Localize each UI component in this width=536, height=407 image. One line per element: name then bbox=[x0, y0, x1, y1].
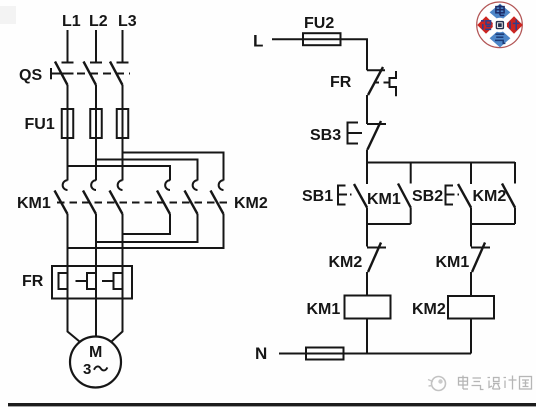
wire KM1 coil to N bus bbox=[366, 319, 368, 354]
KM1 main contact 1 arc bbox=[63, 180, 68, 190]
logo outer circle bbox=[477, 2, 523, 48]
svg-text:N: N bbox=[255, 344, 267, 363]
svg-text:KM2: KM2 bbox=[234, 195, 268, 212]
svg-text:QS: QS bbox=[19, 67, 42, 84]
SB1 actuator rod bbox=[338, 194, 352, 196]
svg-text:M: M bbox=[89, 344, 102, 361]
QS pole 1 fixed contact bbox=[62, 62, 74, 64]
svg-text:FU2: FU2 bbox=[304, 15, 334, 32]
SB3 actuator bbox=[348, 123, 359, 144]
svg-text:L: L bbox=[253, 32, 263, 51]
fuse FU2 bbox=[303, 33, 341, 45]
svg-text:L3: L3 bbox=[118, 13, 137, 30]
svg-text:SB1: SB1 bbox=[302, 188, 333, 205]
SB3 actuator rod bbox=[348, 132, 363, 134]
logo center circle bbox=[493, 18, 507, 32]
logo center glyph bbox=[496, 21, 504, 29]
watermark text quan bbox=[520, 377, 532, 390]
wire phase2 to KM2 pole2 top bbox=[96, 160, 198, 181]
KM2 main contact 3 arc bbox=[219, 180, 224, 190]
svg-text:L1: L1 bbox=[62, 13, 81, 30]
QS pole 2 blade bbox=[84, 62, 97, 86]
svg-text:KM2: KM2 bbox=[329, 254, 363, 271]
FR heater 1 bbox=[59, 273, 68, 289]
wire N to fuse bbox=[279, 353, 306, 355]
watermark text ji bbox=[504, 376, 517, 390]
wire junction to KM1 interlock bbox=[470, 224, 472, 247]
svg-text:KM1: KM1 bbox=[367, 191, 401, 208]
FR heater 2 bbox=[87, 273, 96, 289]
wire L to FU2 bbox=[272, 38, 303, 40]
svg-text:KM2: KM2 bbox=[412, 301, 446, 318]
drop to KM1 aux bbox=[410, 162, 412, 184]
FR trip release symbol bbox=[390, 71, 397, 96]
KM2 main contact 1 arc bbox=[165, 180, 170, 190]
svg-text:KM1: KM1 bbox=[436, 254, 470, 271]
KM1/KM2 linkage dashed bbox=[57, 202, 232, 204]
motor M circle bbox=[70, 337, 121, 388]
svg-text:FU1: FU1 bbox=[25, 116, 55, 133]
top bus bbox=[367, 162, 515, 164]
wire L3 drop bbox=[122, 30, 124, 63]
wire phase2 down to KM1 pole2 bbox=[95, 138, 97, 181]
wire FR to SB3 bbox=[366, 95, 368, 124]
watermark text she bbox=[488, 378, 501, 390]
LOGO top right bbox=[477, 2, 523, 48]
FR NC contact bar bbox=[367, 69, 385, 71]
wire KM2 pole2 to phase2 column bbox=[96, 214, 198, 242]
drop to SB2 bbox=[470, 162, 472, 184]
wire SB3 to bus bbox=[366, 150, 368, 164]
SB2 actuator bbox=[446, 186, 454, 205]
KM2 main contact 1 blade bbox=[157, 191, 170, 215]
KM2 main contact 3 blade bbox=[211, 191, 224, 215]
wire KM2 coil to N bus bbox=[470, 319, 472, 354]
wire QS to FU1 phase3 bbox=[122, 85, 124, 109]
svg-text:KM1: KM1 bbox=[307, 301, 341, 318]
WATERMARK bottom right bbox=[428, 376, 532, 391]
QS linkage dashed bbox=[77, 73, 130, 75]
wire column3 to FR bbox=[122, 214, 124, 266]
logo char left bbox=[481, 21, 491, 30]
SB1 actuator bbox=[338, 186, 346, 205]
KM2 NC interlock bar bbox=[367, 247, 386, 249]
KM1 aux NO blade bbox=[398, 184, 411, 208]
wire FR to motor U bbox=[68, 299, 80, 342]
logo right diamond bbox=[505, 16, 523, 34]
QS pole 3 blade bbox=[110, 62, 123, 86]
svg-text:KM1: KM1 bbox=[17, 195, 51, 212]
FR linkage dash 2 bbox=[102, 280, 113, 282]
KM2 main contact 2 arc bbox=[193, 180, 198, 190]
fuse FU1 element 1 bbox=[62, 109, 74, 138]
logo bottom diamond bbox=[490, 29, 511, 47]
thermal relay FR box bbox=[52, 266, 132, 299]
wire SB2 to junction bbox=[470, 208, 472, 225]
wire interlock to KM1 coil bbox=[366, 272, 368, 296]
wire KM2 pole1 to phase3 column bbox=[123, 214, 171, 234]
SB3 NC contact blade bbox=[368, 121, 382, 150]
svg-text:SB3: SB3 bbox=[310, 127, 341, 144]
junction bus right branch bbox=[471, 223, 515, 225]
QS pole 1 blade bbox=[55, 62, 68, 86]
KM1 main contact 2 blade bbox=[83, 191, 96, 215]
wire phase1 down to KM1 pole1 bbox=[67, 138, 69, 181]
svg-text:KM2: KM2 bbox=[473, 188, 507, 205]
wire interlock to KM2 coil bbox=[470, 272, 472, 296]
coil KM2 bbox=[448, 296, 494, 319]
wire FR to motor W bbox=[112, 299, 123, 342]
logo top diamond bbox=[490, 4, 511, 22]
logo char top bbox=[496, 5, 504, 16]
SB3 NC contact bar bbox=[367, 123, 386, 125]
FR NC contact blade bbox=[368, 67, 383, 95]
SB2 actuator rod bbox=[446, 194, 460, 196]
watermark text qi bbox=[472, 378, 484, 390]
wire junction to KM2 interlock bbox=[366, 224, 368, 247]
wire FU2 to corner bbox=[341, 39, 368, 70]
wire QS to FU1 phase2 bbox=[95, 85, 97, 109]
fuse FU1 element 3 bbox=[117, 109, 129, 138]
FR heater 3 bbox=[114, 273, 123, 289]
KM1 NC interlock blade bbox=[472, 243, 485, 273]
drop to KM2 aux bbox=[514, 162, 516, 184]
KM1 main contact 2 arc bbox=[91, 180, 96, 190]
wire column1 to FR bbox=[67, 214, 69, 266]
KM1 NC interlock bar bbox=[471, 247, 490, 249]
svg-text:FR: FR bbox=[330, 74, 352, 91]
svg-text:FR: FR bbox=[22, 273, 44, 290]
SB1 NO contact blade bbox=[354, 184, 367, 208]
wire L2 drop bbox=[95, 30, 97, 63]
wire FR to motor V bbox=[95, 299, 97, 337]
QS handle bbox=[50, 68, 52, 79]
N bus bbox=[344, 353, 472, 355]
KM2 NC interlock blade bbox=[368, 243, 381, 273]
KM1 main contact 1 blade bbox=[55, 191, 68, 215]
FR linkage dash 1 bbox=[76, 280, 87, 282]
wire KM2 aux to junction bbox=[514, 208, 516, 225]
FR trip linkage dash bbox=[374, 82, 390, 84]
wire phase1 to KM2 pole1 top bbox=[68, 166, 171, 181]
wire L1 drop bbox=[67, 30, 69, 63]
KM2 main contact 2 blade bbox=[185, 191, 198, 215]
junction bus left branch bbox=[367, 223, 411, 225]
logo char right bbox=[510, 19, 519, 30]
fuse FU1 element 2 bbox=[90, 109, 102, 138]
svg-text:3: 3 bbox=[83, 361, 91, 378]
wire KM2 pole3 to phase1 column bbox=[68, 214, 224, 248]
drop to SB1 bbox=[366, 162, 368, 184]
fuse on N line bbox=[306, 348, 344, 360]
wire column2 to FR bbox=[95, 214, 97, 266]
logo char bottom bbox=[495, 34, 505, 43]
wire KM1 aux to junction bbox=[410, 208, 412, 225]
KM2 aux NO blade bbox=[502, 184, 515, 208]
coil KM1 bbox=[345, 296, 391, 319]
bottom black bar bbox=[8, 403, 536, 406]
wire QS to FU1 phase1 bbox=[67, 85, 69, 109]
watermark text dian bbox=[459, 376, 469, 390]
QS pole 3 fixed contact bbox=[117, 62, 129, 64]
QS pole 2 fixed contact bbox=[90, 62, 102, 64]
KM1 main contact 3 blade bbox=[110, 191, 123, 215]
wire phase3 to KM2 pole3 top bbox=[123, 153, 224, 181]
svg-text:SB2: SB2 bbox=[412, 188, 443, 205]
svg-text:L2: L2 bbox=[89, 13, 108, 30]
KM1 main contact 3 arc bbox=[118, 180, 123, 190]
wire SB1 to junction bbox=[366, 208, 368, 225]
SB2 NO contact blade bbox=[458, 184, 471, 208]
watermark icon bbox=[432, 377, 446, 391]
logo left diamond bbox=[477, 16, 495, 34]
faint corner smudge bbox=[0, 6, 16, 24]
wire phase3 down to KM1 pole3 bbox=[122, 138, 124, 181]
